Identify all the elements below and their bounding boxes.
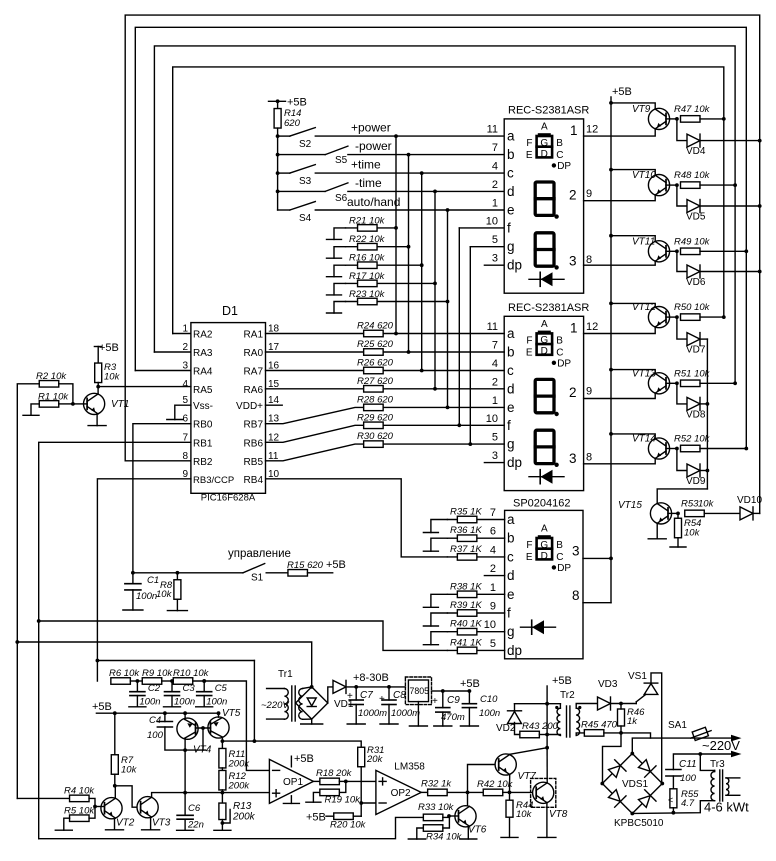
wire sense to bridge: [17, 642, 311, 687]
ground C5: [196, 706, 213, 708]
resistor R13: [219, 803, 226, 820]
wire C4 to mirror: [165, 727, 206, 750]
wire VT13 emitter to display: [584, 394, 656, 399]
ground VT3: [142, 829, 160, 831]
svg-text:2: 2: [569, 385, 577, 400]
transistor VT2: [101, 798, 122, 819]
svg-text:R13: R13: [233, 801, 252, 812]
svg-text:3: 3: [492, 253, 498, 265]
svg-text:10k: 10k: [684, 528, 701, 539]
wire VDS1 bottom to Tr3: [632, 801, 714, 814]
svg-text:d: d: [507, 184, 515, 199]
resistor R15: [288, 570, 308, 577]
wire R13 wiper hook: [222, 810, 230, 824]
resistor R20: [334, 813, 354, 820]
svg-text:+: +: [432, 696, 438, 707]
wire R2 sense down: [17, 384, 39, 799]
resistor R19: [320, 789, 340, 796]
wire bus v4: [434, 191, 436, 388]
svg-text:C3: C3: [183, 683, 196, 694]
resistor R10: [173, 678, 193, 685]
svg-text:7805: 7805: [410, 686, 430, 696]
wire bus v6: [458, 228, 460, 425]
svg-text:PIC16F628A: PIC16F628A: [201, 493, 256, 504]
node +5B out: [468, 689, 472, 693]
node pole 2: [276, 153, 280, 157]
resistor R50: [681, 314, 701, 321]
wire R47 out: [700, 118, 724, 120]
wire to VD6: [677, 251, 687, 271]
transistor VT15: [650, 503, 671, 524]
node R45 R46: [619, 731, 623, 735]
wire RB0 down: [133, 424, 191, 573]
wire L1 to RB2 pin8: [125, 460, 191, 462]
wire VD5 to L1: [700, 205, 760, 207]
wire L4 to RA2 pin1: [173, 333, 191, 335]
svg-text:+5B: +5B: [287, 97, 307, 109]
svg-text:100n: 100n: [174, 697, 195, 708]
svg-text:RA5: RA5: [193, 385, 213, 396]
diode VD7: [687, 333, 700, 346]
svg-text:R36 1K: R36 1K: [450, 525, 482, 536]
svg-text:R38 1K: R38 1K: [450, 581, 482, 592]
resistor R25: [364, 349, 384, 356]
wire to R42: [468, 791, 484, 793]
svg-text:RB2: RB2: [193, 457, 213, 468]
display box 1: [504, 119, 583, 293]
svg-text:d: d: [507, 568, 515, 583]
svg-text:S3: S3: [299, 176, 312, 187]
svg-text:REC-S2381ASR: REC-S2381ASR: [508, 302, 589, 314]
svg-text:3: 3: [569, 253, 577, 268]
wire +5B to VT13 collector: [611, 370, 655, 374]
digit 8: [535, 430, 554, 463]
wire VD9 to common: [700, 470, 707, 472]
node VT1 base: [71, 402, 75, 406]
node bridge top: [310, 685, 314, 689]
svg-text:VT1: VT1: [111, 399, 129, 410]
svg-text:+5B: +5B: [306, 812, 326, 824]
svg-text:RA3: RA3: [193, 348, 213, 359]
resistor R37: [457, 554, 477, 561]
node VT2 base: [93, 805, 97, 809]
wire to VT7 base: [468, 765, 499, 793]
wire OP1 out: [313, 780, 319, 782]
wire C1 gnd: [132, 590, 134, 610]
svg-text:R40 1K: R40 1K: [450, 619, 482, 630]
wire R34 to base: [443, 816, 450, 828]
svg-text:4: 4: [182, 379, 188, 390]
wire R10 to OP1 minus: [193, 681, 270, 770]
svg-text:d: d: [507, 381, 515, 396]
wire R7 top: [114, 713, 116, 755]
svg-text:C: C: [556, 552, 563, 563]
resistor R31: [358, 747, 365, 767]
svg-text:+5B: +5B: [612, 86, 632, 98]
ground C1: [123, 609, 143, 611]
svg-text:auto/hand: auto/hand: [347, 195, 400, 209]
op-amp OP1: [269, 759, 313, 803]
svg-text:RA6: RA6: [244, 385, 264, 396]
wire to VD4: [677, 119, 687, 141]
wire +5B tick VT1: [94, 346, 101, 348]
svg-text:R18 20k: R18 20k: [316, 768, 353, 779]
wire R12 bottom: [221, 790, 223, 793]
svg-text:8: 8: [572, 588, 580, 603]
svg-text:SA1: SA1: [668, 720, 687, 731]
svg-text:470m: 470m: [441, 712, 465, 723]
wire REC1 dp stub: [484, 264, 504, 266]
svg-text:VD6: VD6: [686, 277, 706, 288]
svg-text:8: 8: [586, 451, 592, 463]
svg-text:C5: C5: [215, 683, 228, 694]
wire to VD7: [677, 317, 687, 339]
svg-text:+time: +time: [351, 158, 381, 172]
wire VT5 node right: [222, 740, 254, 742]
resistor R1: [39, 401, 59, 408]
svg-text:C9: C9: [447, 695, 460, 706]
svg-text:10k: 10k: [516, 809, 533, 820]
wire R46 bottom lead: [620, 726, 622, 733]
node VDS1 right: [660, 782, 664, 786]
wire VT15 base: [668, 512, 678, 514]
svg-text:+5B: +5B: [326, 559, 346, 571]
svg-text:R6 10k: R6 10k: [109, 668, 140, 679]
svg-text:RB0: RB0: [193, 420, 213, 431]
transistor VT5: [208, 717, 229, 738]
resistor R11: [219, 748, 226, 768]
node pole 1: [276, 134, 280, 138]
svg-text:OP2: OP2: [391, 788, 411, 799]
svg-text:R29 620: R29 620: [357, 412, 394, 423]
svg-text:1000m: 1000m: [391, 708, 420, 719]
diode VD2: [508, 712, 522, 724]
svg-text:RA0: RA0: [244, 348, 264, 359]
svg-text:+power: +power: [351, 121, 391, 135]
wire control: [133, 572, 243, 574]
svg-text:12: 12: [586, 321, 598, 333]
svg-text:e: e: [507, 400, 515, 415]
wire R6-R9: [130, 680, 142, 682]
svg-text:VT14: VT14: [632, 434, 656, 445]
svg-text:R37 1K: R37 1K: [450, 544, 482, 555]
wire VT1 base: [73, 403, 87, 405]
diode VD10: [740, 507, 753, 520]
svg-text:e: e: [507, 587, 515, 602]
svg-text:C1: C1: [147, 575, 159, 586]
wire VS1 gate: [636, 694, 646, 701]
svg-text:R10 10k: R10 10k: [173, 668, 210, 679]
svg-text:4: 4: [492, 358, 498, 370]
node Tr3 top: [698, 752, 702, 756]
wire VT13 base: [666, 382, 677, 384]
svg-text:dp: dp: [507, 643, 522, 658]
switch S2: [278, 135, 290, 137]
wire VT6 collector: [467, 792, 469, 805]
wire +5B down: [546, 686, 548, 704]
svg-text:VT2: VT2: [116, 818, 135, 829]
svg-text:2: 2: [569, 188, 577, 203]
resistor R21: [358, 225, 378, 232]
wire R34 gnd: [417, 828, 423, 839]
wire R3 bottom: [97, 383, 99, 387]
wire VT8 collector: [546, 748, 548, 783]
wire to VD5: [677, 185, 687, 206]
resistor R51: [681, 380, 701, 387]
svg-text:S5: S5: [335, 155, 348, 166]
wire OP2 out: [421, 791, 427, 793]
wire R31 bottom: [360, 767, 362, 817]
svg-text:VDS1: VDS1: [622, 779, 649, 790]
node bases: [201, 726, 205, 730]
ground stub: [327, 294, 342, 296]
7-segment legend: [538, 331, 551, 334]
wire net RA2 loop L4: [173, 67, 724, 334]
wire VT4 collector down: [184, 738, 186, 792]
wire VT10 base: [666, 184, 677, 186]
wire R8 gnd: [176, 600, 178, 611]
wire VT2 base lead: [95, 806, 104, 808]
wire VT6 base: [449, 815, 458, 817]
wire VT2 collector: [114, 786, 116, 798]
wire bridge gnd: [311, 719, 313, 724]
svg-text:R26 620: R26 620: [357, 358, 394, 369]
wire VD2-Tr2 top: [515, 703, 561, 705]
wire VT11 emitter to display: [584, 262, 656, 266]
ground R54: [670, 546, 686, 548]
wire to VD8: [677, 383, 687, 404]
diode VD9: [687, 464, 700, 477]
svg-text:R24 620: R24 620: [357, 321, 394, 332]
svg-text:R35 1K: R35 1K: [450, 507, 482, 518]
svg-text:R9 10k: R9 10k: [142, 668, 173, 679]
svg-text:1: 1: [490, 582, 496, 594]
node OP2 minus: [359, 801, 363, 805]
wire R44 gnd: [509, 817, 511, 837]
wire R25 row: [266, 351, 505, 353]
wire R39 row: [447, 612, 504, 614]
svg-text:G: G: [540, 138, 548, 149]
ground stub: [423, 606, 438, 608]
svg-text:11: 11: [487, 124, 498, 136]
resistor R39: [457, 610, 477, 617]
ground 7805: [409, 725, 427, 727]
diode VDS1 top-right: [637, 758, 656, 777]
svg-text:R28 620: R28 620: [357, 394, 394, 405]
svg-text:7: 7: [492, 142, 498, 154]
wire VT12 emitter to display: [584, 327, 656, 333]
node C2: [136, 679, 140, 683]
svg-text:R49 10k: R49 10k: [674, 236, 711, 247]
resistor R16: [358, 262, 378, 269]
svg-text:VD4: VD4: [686, 146, 706, 157]
ground VT1: [88, 425, 106, 427]
svg-text:1: 1: [570, 321, 578, 336]
wire VT2 emitter: [114, 819, 116, 830]
wire +5B to VT14 collector: [611, 434, 655, 438]
wire R19 link: [339, 781, 345, 792]
wire VDD stub: [266, 404, 283, 406]
wire node to SA1 line: [621, 733, 651, 738]
svg-text:R17 10k: R17 10k: [349, 271, 386, 282]
switch S4: [278, 209, 290, 211]
wire C11-R55: [672, 776, 674, 789]
svg-text:RB4: RB4: [244, 475, 264, 486]
wire Tr2 prim bottom down: [546, 704, 548, 748]
svg-text:R42 10k: R42 10k: [477, 779, 514, 790]
svg-text:RB5: RB5: [244, 457, 264, 468]
node link T: [253, 739, 257, 743]
svg-text:Tr2: Tr2: [560, 690, 575, 701]
transistor VT6: [455, 806, 476, 827]
wire Vss: [175, 405, 191, 419]
svg-text:VD7: VD7: [686, 345, 706, 356]
Tr1 primary coil: [284, 689, 288, 720]
svg-text:Vss-: Vss-: [193, 401, 213, 412]
resistor R5: [70, 815, 90, 822]
SP box: [505, 510, 583, 658]
ground C8: [380, 723, 398, 725]
ground R8: [167, 610, 187, 612]
svg-text:R41 1K: R41 1K: [450, 637, 482, 648]
wire VD4 to L1: [700, 140, 760, 142]
svg-text:A: A: [541, 319, 548, 330]
resistor R42: [483, 789, 503, 796]
minus OP2: [379, 802, 386, 804]
wire R36 row: [447, 537, 504, 539]
svg-text:VT13: VT13: [632, 368, 656, 379]
svg-text:2: 2: [492, 376, 498, 388]
diode VD3: [598, 697, 611, 710]
node C9: [441, 689, 445, 693]
svg-text:F: F: [526, 540, 532, 551]
wire prim top: [559, 704, 561, 709]
svg-text:VT11: VT11: [632, 236, 655, 247]
wire OP1 vplus: [290, 756, 292, 767]
wire R13 bottom: [221, 820, 223, 831]
wire R49 out: [700, 250, 746, 252]
wire R19 gnd: [313, 792, 319, 802]
svg-text:G: G: [540, 335, 548, 346]
svg-text:C4: C4: [149, 715, 161, 726]
wire L2 to RA4 pin3: [135, 370, 191, 372]
svg-text:8: 8: [586, 254, 592, 266]
ground R19: [306, 801, 321, 803]
resistor R12: [219, 770, 226, 790]
svg-text:R53: R53: [681, 499, 699, 510]
node C3: [170, 679, 174, 683]
svg-text:+5B: +5B: [460, 678, 480, 690]
minus OP1: [273, 769, 280, 771]
capacitor C6: [177, 814, 193, 816]
svg-text:e: e: [507, 203, 515, 218]
resistor R26: [364, 367, 384, 374]
wire R29 diagonal row: [266, 425, 505, 442]
node C8: [387, 685, 391, 689]
wire +5B to VT11 collector: [611, 236, 655, 241]
svg-text:1000m: 1000m: [358, 708, 387, 719]
wire VT8 emitter: [546, 803, 548, 837]
resistor R27: [364, 386, 384, 393]
capacitor C9: [436, 707, 450, 709]
ground R1: [23, 414, 39, 416]
wire RB1 bus to R33: [39, 817, 424, 838]
wire VT11 base: [666, 250, 677, 252]
resistor R33: [423, 814, 443, 821]
wire VT4 top: [184, 713, 186, 719]
capacitor C1: [125, 583, 141, 585]
wire VT14 emitter to display: [584, 459, 656, 464]
svg-text:1k: 1k: [627, 716, 638, 727]
svg-text:LM358: LM358: [394, 762, 425, 773]
svg-text:R2 10k: R2 10k: [36, 371, 67, 382]
wire bridge out: [328, 687, 333, 703]
svg-text:7: 7: [490, 507, 496, 519]
wire Tr3 sec top: [726, 777, 740, 779]
wire VT5 emitter: [221, 737, 223, 741]
wire to VD9: [677, 449, 687, 471]
svg-text:S6: S6: [335, 193, 348, 204]
svg-text:B: B: [556, 138, 563, 149]
wire R15 to +5B: [308, 572, 333, 574]
node VDS1 left: [600, 782, 604, 786]
svg-text:R1 10k: R1 10k: [38, 392, 69, 403]
ground stub: [423, 625, 438, 627]
wire RB1 down: [39, 442, 191, 838]
bridge diamond: [296, 687, 328, 719]
svg-text:4: 4: [490, 544, 496, 556]
svg-text:D1: D1: [222, 304, 238, 318]
wire +5B rail: [610, 97, 612, 603]
wire R53 to VD10: [704, 512, 740, 514]
resistor R9: [142, 678, 162, 685]
svg-text:5: 5: [490, 638, 496, 650]
wire VD10 to L1: [753, 512, 760, 514]
wire REC1 g: [470, 246, 504, 248]
ground bridge: [301, 723, 323, 725]
resistor R35: [457, 516, 477, 523]
wire net RA3 loop L3: [154, 46, 735, 383]
svg-text:-time: -time: [355, 176, 382, 190]
wire Tr1 prim bottom: [267, 718, 285, 720]
svg-text:R47 10k: R47 10k: [674, 104, 711, 115]
ground R13: [214, 829, 231, 831]
svg-text:VT8: VT8: [549, 809, 568, 820]
node VDS1 top: [630, 752, 634, 756]
wire R30 diagonal row: [266, 444, 505, 461]
resistor R22: [358, 243, 378, 250]
svg-text:2: 2: [182, 342, 188, 353]
ground R34: [408, 838, 425, 840]
svg-text:10: 10: [484, 619, 496, 631]
svg-text:C8: C8: [393, 690, 406, 701]
wire R55 bottom: [672, 808, 674, 813]
svg-text:RA4: RA4: [193, 367, 213, 378]
wire R51 out: [700, 382, 735, 384]
wire L3 to RA3 pin2: [154, 351, 191, 353]
wire VT7 collector diag: [510, 748, 547, 755]
op-amp OP2 LM358: [376, 770, 421, 814]
wire SP pin3: [583, 557, 611, 559]
svg-text:g: g: [507, 437, 515, 452]
svg-text:100n: 100n: [479, 708, 500, 719]
node mirror: [183, 748, 187, 752]
svg-text:620: 620: [284, 118, 301, 129]
ground VT2: [106, 829, 124, 831]
wire +5B to VT12 collector: [611, 303, 655, 307]
diode VD6: [687, 265, 700, 278]
node VT13 base: [675, 381, 679, 385]
